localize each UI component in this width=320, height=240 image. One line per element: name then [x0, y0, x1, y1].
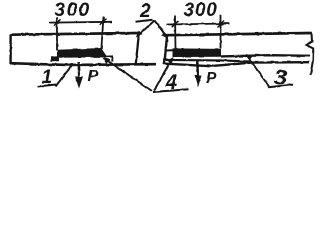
plate 1 left edge — [9, 34, 11, 64]
plate 3 top edge — [165, 33, 312, 35]
dim right arrow right — [221, 22, 228, 25]
dim left arrow right — [102, 20, 109, 23]
dim right slash left — [172, 21, 179, 28]
plate 3 upper bottom stub — [165, 49, 173, 51]
dim left ext line B — [101, 17, 103, 50]
svg-text:300: 300 — [55, 0, 91, 21]
callout 4 arrow right — [167, 57, 173, 64]
callout 3 underline — [269, 85, 294, 88]
clad bar left (black) — [58, 48, 108, 58]
lower plate top edge — [164, 60, 252, 62]
P arrow left head — [75, 77, 83, 89]
mid line right of bar — [221, 55, 310, 56]
svg-text:P: P — [88, 68, 99, 85]
dim left slash left — [54, 19, 61, 25]
P arrow left shaft — [77, 62, 80, 79]
callout 2 underline — [136, 20, 154, 22]
callout 4 arrow left — [103, 58, 110, 64]
dim right arrow left — [169, 23, 176, 26]
plate 1 bottom edge — [10, 63, 156, 65]
dim left line — [49, 21, 112, 24]
clad bar left foot — [51, 56, 59, 62]
dim right slash right — [218, 21, 225, 28]
lower plate bottom edge — [164, 62, 309, 66]
plate 1 top edge — [11, 33, 140, 35]
clad bar right (black) — [173, 48, 222, 57]
plate 1 right edge — [136, 33, 139, 65]
dim right ext line B — [220, 15, 222, 49]
dim right ext line A — [174, 16, 177, 49]
P arrow right head — [195, 76, 202, 88]
plate 3 left edge — [164, 35, 167, 65]
dim left ext line A — [56, 17, 58, 51]
break line right end — [307, 33, 314, 75]
callout 3 leader — [247, 56, 269, 87]
callout 2 leader left — [138, 21, 155, 37]
callout 3 arrow — [246, 54, 253, 60]
svg-text:2: 2 — [139, 1, 151, 22]
callout 1 underline — [38, 85, 57, 87]
callout 4 leader right — [154, 59, 173, 91]
dim right line — [167, 24, 230, 25]
callout 4 underline — [153, 89, 189, 92]
clad bar left end step — [105, 56, 113, 61]
P arrow right shaft — [196, 61, 199, 77]
callout 2 leader right — [155, 21, 168, 38]
svg-text:P: P — [206, 70, 217, 87]
callout 4 leader left — [105, 59, 153, 92]
dim left slash right — [100, 19, 107, 25]
callout 1 leader — [56, 64, 74, 87]
dim left arrow left — [53, 21, 60, 24]
callout 2 arrow left — [136, 31, 143, 38]
svg-text:300: 300 — [184, 0, 218, 21]
callout 2 arrow right — [161, 32, 168, 39]
